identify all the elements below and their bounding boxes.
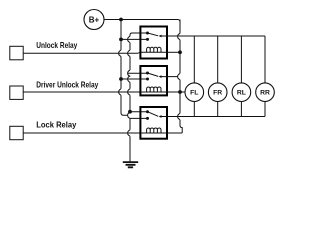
coil U2 <box>140 87 167 92</box>
wire U1 common out <box>161 35 167 37</box>
wire hop C r2 common tap <box>178 73 180 79</box>
pin U1 lower contact <box>146 38 149 41</box>
coil U3 <box>140 128 167 133</box>
wire hop B unlock crossing <box>128 50 130 56</box>
motor RL <box>232 83 251 102</box>
wire coil2 to FL <box>167 91 185 93</box>
wire hop A driver-unlock crossing <box>119 89 121 95</box>
switch U3 arm <box>148 112 159 117</box>
relay U1 unlock relay box <box>140 27 167 59</box>
wire bottom motor bus <box>167 116 265 118</box>
node B+ junction <box>119 18 123 22</box>
node A r1 tap <box>119 38 123 42</box>
wire lock input <box>23 132 140 134</box>
wire driver-unlock input <box>23 91 140 93</box>
wire hop C bottom bus crossing <box>178 113 180 119</box>
wire hop B lock crossing <box>128 130 130 136</box>
pin U3 lower contact <box>146 117 149 120</box>
switch U1 arm contact arrow <box>159 35 162 38</box>
node C coil1 junction <box>178 50 182 54</box>
battery B+ <box>84 10 104 30</box>
wire RL drop top <box>240 36 242 83</box>
wire top motor bus <box>167 35 265 37</box>
wire U3 common out <box>161 116 167 118</box>
wire RL drop bottom <box>240 102 242 117</box>
wire bus A vertical <box>121 20 128 116</box>
pin U3 upper contact <box>146 110 149 113</box>
wire hop B a-corner tap <box>128 112 130 118</box>
switch U3 arm contact arrow <box>159 115 162 118</box>
svg-text:B+: B+ <box>89 16 100 25</box>
wire relay3 bottom contact feed <box>130 117 148 119</box>
motor RR <box>256 83 275 102</box>
node B r3 junction <box>128 110 132 114</box>
relay U3 lock relay box <box>140 107 167 139</box>
switch U2 arm <box>148 73 159 76</box>
wire RR drop bottom <box>264 102 266 117</box>
wire coil3 to C <box>167 132 182 134</box>
wire hop B driver-unlock crossing <box>128 89 130 95</box>
wire relay3 top contact feed <box>130 111 148 113</box>
wire FR drop top <box>217 36 219 83</box>
svg-text:RL: RL <box>237 90 246 97</box>
svg-text:Driver Unlock Relay: Driver Unlock Relay <box>36 79 98 89</box>
ground <box>123 162 138 167</box>
wire relay1 bottom contact feed <box>121 38 148 40</box>
pin U2 lower contact <box>146 78 149 81</box>
wire RR drop top <box>264 36 266 83</box>
wire bus B vertical <box>129 35 131 162</box>
coil U1 <box>140 47 167 52</box>
wire B+ feed <box>104 20 180 34</box>
svg-text:Unlock Relay: Unlock Relay <box>36 40 77 50</box>
wire FL drop bottom <box>193 102 195 117</box>
motor FL <box>185 83 204 102</box>
wire unlock input <box>23 52 140 53</box>
wire relay2 top contact feed <box>128 72 148 74</box>
wire bus C vertical B+ right <box>180 20 182 134</box>
wire FL drop top <box>193 36 195 83</box>
relay U2 driver unlock relay box <box>140 66 167 95</box>
switch U2 arm contact arrow <box>159 75 162 78</box>
svg-text:RR: RR <box>260 90 270 97</box>
wire relay2 bottom contact feed <box>121 78 148 80</box>
connector driver-unlock-relay input <box>10 86 23 99</box>
wire hop B r2-top-contact tap <box>128 70 130 76</box>
wire FR drop bottom <box>217 102 219 117</box>
pin U1 upper contact <box>146 32 149 35</box>
wire U2 common out <box>161 76 178 78</box>
svg-text:FL: FL <box>190 90 198 97</box>
connector lock-relay input <box>10 126 23 139</box>
wire coil1 to C <box>167 51 180 53</box>
switch U1 arm <box>148 33 159 36</box>
svg-text:Lock Relay: Lock Relay <box>36 120 76 130</box>
wire hop C top bus crossing <box>178 33 180 39</box>
node A r2 tap <box>119 77 123 81</box>
wire relay1 top contact feed <box>130 33 148 35</box>
connector unlock-relay input <box>10 46 23 60</box>
svg-text:FR: FR <box>213 90 222 97</box>
wire hop B r2-lower-contact <box>128 76 130 83</box>
wire hop A unlock crossing <box>119 50 121 56</box>
motor FR <box>208 83 227 102</box>
pin U2 upper contact <box>146 72 149 75</box>
node C coil2 junction <box>178 90 182 94</box>
wire hop B r1-lower-contact <box>128 36 130 42</box>
